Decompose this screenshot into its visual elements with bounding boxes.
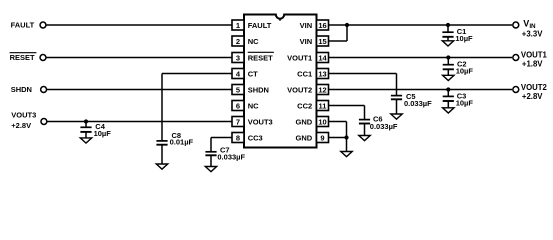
terminal VOUT1: [513, 55, 519, 61]
svg-text:13: 13: [318, 69, 326, 78]
wire VOUT2 pin 12 to terminal: [329, 89, 513, 91]
svg-text:7: 7: [236, 117, 240, 126]
svg-text:2: 2: [236, 37, 240, 46]
svg-text:VOUT2: VOUT2: [287, 85, 312, 94]
wire C3 lead: [447, 90, 449, 97]
pin 13 box: [317, 69, 329, 79]
wire C2 lead: [447, 58, 449, 65]
pin 15 box: [317, 36, 329, 46]
node junction VIN/C1: [446, 23, 450, 27]
wire VIN pin 15: [329, 40, 348, 42]
svg-text:+2.8V: +2.8V: [11, 121, 31, 130]
svg-text:SHDN: SHDN: [248, 85, 269, 94]
svg-text:15: 15: [318, 37, 326, 46]
wire pin 10 GND: [329, 121, 347, 123]
wire VOUT3 to pin 7: [47, 121, 232, 123]
svg-text:VOUT3: VOUT3: [11, 110, 36, 119]
terminal SHDN: [41, 87, 47, 93]
pin 2 box: [232, 36, 244, 46]
wire pin 4 CT: [162, 73, 232, 75]
svg-text:RESET: RESET: [10, 53, 35, 62]
ground: [359, 136, 370, 141]
svg-text:0.033µF: 0.033µF: [404, 99, 432, 108]
svg-text:0.01µF: 0.01µF: [170, 138, 194, 147]
wire CC1 down to C5: [396, 74, 398, 96]
svg-text:FAULT: FAULT: [11, 20, 35, 29]
node junction VOUT1/C2: [446, 55, 450, 59]
svg-text:VOUT3: VOUT3: [248, 117, 273, 126]
terminal RESET: [40, 55, 46, 61]
capacitor C7: [205, 151, 216, 153]
svg-text:1: 1: [236, 21, 240, 30]
pin 12 box: [317, 85, 329, 95]
capacitor C3: [443, 95, 454, 97]
ground: [341, 152, 352, 157]
svg-text:+1.8V: +1.8V: [522, 59, 543, 68]
wire FAULT to pin 1: [46, 24, 232, 26]
terminal VOUT3: [41, 119, 47, 125]
svg-text:GND: GND: [296, 117, 313, 126]
pin 5 box: [232, 85, 244, 95]
wire CC3 down to C7: [210, 138, 212, 152]
capacitor C6: [359, 119, 370, 121]
svg-text:CT: CT: [248, 69, 258, 78]
pin 9 box: [317, 133, 329, 143]
svg-text:10µF: 10µF: [455, 34, 473, 43]
svg-text:8: 8: [236, 133, 240, 142]
wire C7 to ground: [210, 155, 212, 166]
terminal VIN: [513, 22, 519, 28]
wire CC2 down to C6: [364, 106, 366, 120]
terminal FAULT: [40, 22, 46, 28]
svg-text:VOUT1: VOUT1: [521, 50, 548, 59]
wire C5 to ground: [396, 99, 398, 114]
wire VOUT1 pin 14 to terminal: [329, 57, 513, 59]
svg-text:14: 14: [318, 53, 327, 62]
pin 8 box: [232, 133, 244, 143]
pin 16 box: [317, 20, 329, 30]
svg-text:FAULT: FAULT: [248, 21, 272, 30]
ground: [443, 75, 454, 80]
svg-text:6: 6: [236, 101, 240, 110]
svg-text:9: 9: [320, 133, 324, 142]
ground: [391, 114, 402, 119]
wire VIN pin 16 to terminal: [329, 24, 513, 26]
svg-text:CC3: CC3: [248, 133, 263, 142]
wire C3 to ground: [447, 101, 449, 108]
svg-text:VOUT2: VOUT2: [521, 83, 548, 92]
pin 1 box: [232, 20, 244, 30]
wire C1 to ground: [447, 37, 449, 41]
pin 4 box: [232, 69, 244, 79]
wire C8 to ground: [161, 145, 163, 164]
pin 11 box: [317, 101, 329, 111]
svg-text:VOUT1: VOUT1: [287, 53, 312, 62]
ground: [80, 138, 91, 143]
svg-text:CC1: CC1: [297, 69, 312, 78]
ground: [442, 41, 453, 46]
svg-text:10: 10: [318, 117, 326, 126]
svg-text:GND: GND: [296, 133, 313, 142]
svg-text:CC2: CC2: [297, 101, 312, 110]
ground: [205, 167, 216, 172]
pin 10 box: [317, 117, 329, 127]
wire C6 to ground: [364, 124, 366, 136]
node junction GND pins: [344, 135, 348, 139]
wire C1 lead: [447, 25, 449, 32]
svg-text:3: 3: [236, 53, 240, 62]
wire SHDN to pin 5: [47, 89, 232, 91]
svg-text:12: 12: [318, 85, 326, 94]
wire GND down: [346, 122, 348, 152]
pin 7 box: [232, 117, 244, 127]
svg-text:10µF: 10µF: [456, 67, 474, 76]
pin 6 box: [232, 101, 244, 111]
node junction VOUT3/C4: [84, 119, 88, 123]
svg-text:+2.8V: +2.8V: [522, 92, 543, 101]
wire VIN pins join: [346, 25, 348, 41]
svg-text:5: 5: [236, 85, 240, 94]
svg-text:VIN: VIN: [300, 21, 313, 30]
ground: [443, 108, 454, 113]
wire C4 to ground: [85, 132, 87, 138]
wire pin 13 CC1: [329, 73, 397, 75]
svg-text:10µF: 10µF: [456, 98, 474, 107]
wire RESET to pin 3: [46, 57, 232, 59]
wire C4 lead: [85, 122, 87, 128]
svg-text:NC: NC: [248, 101, 259, 110]
capacitor C1: [442, 31, 453, 33]
capacitor C8: [156, 140, 167, 142]
svg-text:RESET: RESET: [248, 53, 273, 62]
wire C2 to ground: [447, 69, 449, 75]
svg-text:NC: NC: [248, 37, 259, 46]
svg-text:VIN: VIN: [300, 37, 313, 46]
wire CT down to C8: [161, 74, 163, 141]
node junction VOUT2/C3: [446, 87, 450, 91]
svg-text:+3.3V: +3.3V: [522, 29, 543, 38]
wire pin 9 GND: [329, 137, 347, 139]
capacitor C4: [80, 126, 91, 128]
capacitor C2: [443, 64, 454, 66]
wire pin 11 CC2: [329, 105, 365, 107]
node junction VIN pins: [345, 23, 349, 27]
terminal VOUT2: [513, 87, 519, 93]
pin 14 box: [317, 53, 329, 63]
capacitor C5: [391, 95, 402, 97]
svg-text:11: 11: [319, 101, 327, 110]
svg-text:0.033µF: 0.033µF: [217, 153, 245, 162]
pin 3 box: [232, 53, 244, 63]
svg-text:10µF: 10µF: [94, 129, 112, 138]
svg-text:16: 16: [318, 21, 326, 30]
svg-text:0.033µF: 0.033µF: [370, 122, 398, 131]
wire pin 8 CC3: [211, 137, 232, 139]
ground: [156, 164, 167, 169]
svg-text:SHDN: SHDN: [11, 85, 32, 94]
IC U1 body (16-pin DIP regulator): [244, 15, 317, 148]
